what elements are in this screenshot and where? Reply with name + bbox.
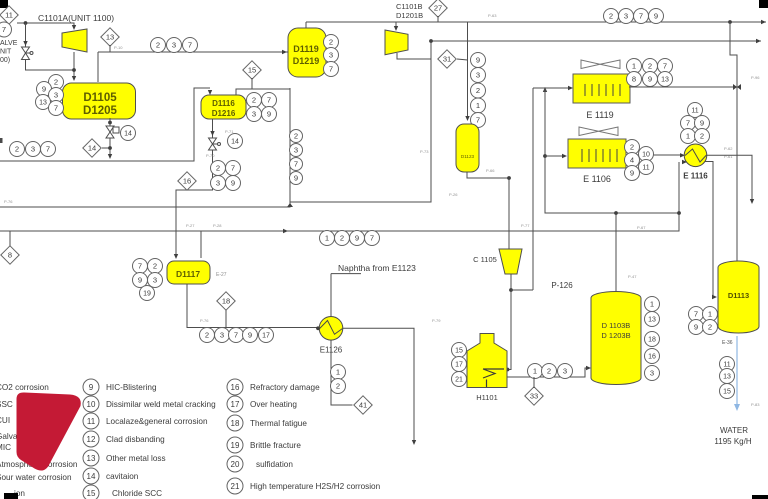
svg-text:14: 14 [231, 139, 239, 146]
junction [614, 211, 618, 215]
svg-text:3: 3 [650, 369, 654, 378]
svg-text:2: 2 [205, 331, 209, 340]
svg-text:C1101B: C1101B [396, 2, 423, 11]
svg-text:High temperature H2S/H2 corros: High temperature H2S/H2 corrosion [250, 482, 381, 491]
svg-text:P-47: P-47 [628, 274, 637, 279]
svg-text:11: 11 [723, 362, 730, 369]
node 7 tag [471, 113, 486, 128]
node 9 tag [689, 320, 704, 335]
svg-text:18: 18 [222, 297, 230, 306]
svg-text:9: 9 [694, 323, 698, 332]
arrow above valve [23, 41, 27, 46]
valve on recycle line [22, 47, 34, 60]
arrow header y22 [761, 20, 766, 24]
svg-text:1: 1 [632, 62, 636, 71]
wire diamond27 stem [437, 16, 439, 22]
svg-text:19: 19 [231, 441, 240, 450]
svg-text:P-76: P-76 [4, 199, 13, 204]
svg-text:7: 7 [46, 145, 50, 154]
svg-text:19: 19 [143, 291, 151, 298]
diamond 14 [83, 139, 101, 157]
svg-text:7: 7 [294, 160, 298, 169]
svg-text:18: 18 [648, 337, 656, 344]
wire E1119 feed [533, 87, 571, 89]
red annotation mark [17, 392, 81, 470]
node 3 tag [471, 68, 486, 83]
wire second header y41 [431, 40, 761, 42]
arrow into D1105 [72, 76, 76, 81]
junction [543, 154, 547, 158]
node 1 tag [331, 365, 346, 380]
node 7 tag [634, 9, 649, 24]
svg-text:D1216: D1216 [212, 109, 236, 118]
svg-text:17: 17 [455, 362, 463, 369]
fan of air cooler E1119 [581, 60, 620, 69]
node 7 (clipped) [0, 22, 12, 37]
node 16 tag [645, 349, 660, 364]
svg-text:9: 9 [248, 331, 252, 340]
svg-text:Dissimilar weld metal cracking: Dissimilar weld metal cracking [106, 400, 216, 409]
svg-text:2: 2 [54, 78, 58, 87]
node 2 tag [200, 328, 215, 343]
node 9 tag [695, 116, 710, 131]
svg-text:20: 20 [231, 460, 240, 469]
wire into compressor B [395, 22, 397, 27]
svg-text:2: 2 [252, 96, 256, 105]
svg-text:D1123: D1123 [461, 154, 475, 159]
svg-text:2: 2 [340, 234, 344, 243]
legend node 10 [83, 396, 99, 412]
arrow into E1106 [562, 154, 567, 158]
svg-text:Thermal fatigue: Thermal fatigue [250, 419, 307, 428]
node 3 tag [619, 9, 634, 24]
svg-text:7: 7 [663, 62, 667, 71]
node 9 tag [243, 328, 258, 343]
svg-text:2: 2 [708, 323, 712, 332]
svg-text:3: 3 [563, 367, 567, 376]
svg-text:2: 2 [700, 132, 704, 141]
legend node 21 [227, 478, 243, 494]
svg-text:2: 2 [153, 262, 157, 271]
svg-text:1: 1 [325, 234, 329, 243]
svg-text:Clad disbanding: Clad disbanding [106, 435, 165, 444]
svg-text:2: 2 [15, 145, 19, 154]
svg-text:11: 11 [691, 108, 698, 115]
wire D1116 top outlet [236, 89, 290, 95]
svg-text:P-62: P-62 [724, 146, 733, 151]
svg-text:1: 1 [533, 367, 537, 376]
diamond 13 [101, 28, 119, 46]
diamond 8 [1, 246, 19, 264]
node 1 tag [528, 364, 543, 379]
svg-text:1: 1 [686, 132, 690, 141]
svg-text:7: 7 [329, 65, 333, 74]
arrow into D1113 [712, 295, 717, 299]
svg-text:D1117: D1117 [176, 269, 200, 279]
arrow into D1123 [465, 116, 469, 121]
node 2 tag [643, 59, 658, 74]
node 3 tag [215, 328, 230, 343]
node 2 tag [247, 93, 262, 108]
wire C1105 to H1101 [506, 274, 511, 370]
legend node 13 [83, 450, 99, 466]
svg-text:7: 7 [2, 25, 6, 34]
node 3 tag [558, 364, 573, 379]
node 7 tag [324, 62, 339, 77]
svg-text:14: 14 [124, 131, 132, 138]
svg-text:1: 1 [708, 310, 712, 319]
svg-text:9: 9 [89, 383, 94, 392]
legend node 14 [83, 468, 99, 484]
legend node 19 [227, 437, 243, 453]
svg-text:CUI: CUI [0, 416, 10, 425]
arrow into D1119 [282, 50, 287, 54]
node 2 tag [331, 379, 346, 394]
node 8 tag [627, 72, 642, 87]
node 2 tag [290, 130, 303, 143]
diamond 31 [438, 50, 456, 68]
svg-text:7: 7 [639, 12, 643, 21]
svg-text:11: 11 [87, 417, 96, 426]
svg-text:11: 11 [5, 11, 13, 20]
svg-text:P-73: P-73 [420, 149, 429, 154]
svg-text:7: 7 [234, 331, 238, 340]
heat exchanger E1126 [319, 317, 343, 341]
svg-text:2: 2 [648, 62, 652, 71]
svg-text:2: 2 [630, 143, 634, 152]
svg-text:16: 16 [648, 354, 656, 361]
svg-text:7: 7 [694, 310, 698, 319]
svg-text:13: 13 [723, 374, 731, 381]
svg-text:14: 14 [88, 144, 96, 153]
node 21 tag [452, 372, 467, 387]
svg-text:P-63: P-63 [488, 13, 497, 18]
svg-text:Refractory damage: Refractory damage [250, 383, 320, 392]
svg-text:4: 4 [630, 156, 634, 165]
node 2 tag [542, 364, 557, 379]
valve below D1116 [209, 138, 221, 150]
wire diamond18 stem [225, 310, 227, 328]
node 3 tag [645, 366, 660, 381]
svg-text:NIT: NIT [0, 49, 12, 56]
svg-text:21: 21 [455, 377, 463, 384]
node 10 tag [639, 147, 654, 162]
svg-text:Over heating: Over heating [250, 400, 297, 409]
legend node 16 [227, 379, 243, 395]
black corner mark top-left [0, 0, 8, 8]
svg-text:7: 7 [370, 234, 374, 243]
air cooler E1119 [573, 74, 630, 103]
node 7 tag [689, 307, 704, 322]
node 3 tag [49, 88, 64, 103]
vessel D1103B/D1203B [591, 292, 641, 385]
node 7 tag [262, 93, 277, 108]
svg-text:15: 15 [723, 389, 731, 396]
svg-text:D1201B: D1201B [396, 11, 423, 20]
node 3 tag [324, 48, 339, 63]
svg-text:P-27: P-27 [186, 223, 195, 228]
wire compressor B discharge [397, 53, 431, 59]
svg-text:2: 2 [156, 41, 160, 50]
node 2 tag [10, 142, 25, 157]
fan of air cooler E1106 [579, 127, 618, 136]
svg-text:15: 15 [248, 66, 256, 75]
legend node 20 [227, 456, 243, 472]
node 14 tag [228, 134, 243, 149]
arrow into D1117 [174, 254, 178, 259]
svg-text:27: 27 [434, 4, 442, 13]
svg-text:9: 9 [267, 110, 271, 119]
svg-text:D1205: D1205 [83, 105, 117, 117]
svg-text:9: 9 [294, 174, 298, 183]
wire E1116 outlet right [707, 155, 753, 202]
node 3 tag [290, 144, 303, 157]
junction at furnace wall [506, 368, 510, 372]
node 2 tag [703, 320, 718, 335]
svg-text:3: 3 [216, 179, 220, 188]
node 7 tag [229, 328, 244, 343]
svg-text:2: 2 [329, 38, 333, 47]
svg-text:P-126: P-126 [551, 281, 573, 290]
node 13 tag [36, 95, 51, 110]
vessel D1117 [167, 261, 210, 284]
wire overhead riser [97, 52, 99, 82]
svg-text:11: 11 [642, 165, 649, 172]
node 7 tag [49, 101, 64, 116]
clipped fragment at left edge [0, 138, 3, 143]
junction below D1105 [108, 121, 112, 125]
node 7 tag [133, 259, 148, 274]
arrow riser junction [543, 87, 547, 92]
black corner mark bottom-right [752, 495, 768, 499]
node 9 tag [625, 166, 640, 181]
furnace H1101 [467, 334, 507, 388]
black corner mark bottom-left [4, 493, 18, 499]
wire diamond11 to compressor A [17, 23, 74, 28]
node 1 tag [627, 59, 642, 74]
wire diamond13 stem [109, 45, 111, 52]
node 9 tag [226, 176, 241, 191]
wire D1123 to C1105 [467, 172, 509, 249]
node 3 tag [148, 273, 163, 288]
svg-text:3: 3 [153, 276, 157, 285]
air cooler E1106 [568, 139, 626, 168]
arrow into E1116 side inlet [680, 153, 685, 157]
blue water line [736, 336, 738, 405]
node 15 tag [720, 384, 735, 399]
svg-text:10: 10 [87, 400, 96, 409]
svg-text:2: 2 [216, 164, 220, 173]
svg-text:Brittle fracture: Brittle fracture [250, 441, 301, 450]
arrow header y41 [756, 39, 761, 43]
svg-text:13: 13 [661, 77, 669, 84]
svg-text:12: 12 [87, 435, 96, 444]
node 14 tag [121, 126, 136, 141]
svg-text:2: 2 [609, 12, 613, 21]
arrow on valve line [210, 131, 214, 136]
svg-text:13: 13 [87, 454, 96, 463]
svg-text:P-10: P-10 [114, 45, 123, 50]
wire riser join [511, 289, 533, 291]
svg-text:P-77: P-77 [521, 223, 530, 228]
svg-text:D1105: D1105 [83, 92, 117, 104]
svg-text:2: 2 [547, 367, 551, 376]
node 1 tag [681, 129, 696, 144]
svg-text:9: 9 [42, 85, 46, 94]
svg-text:3: 3 [294, 146, 298, 155]
svg-text:17: 17 [231, 400, 240, 409]
vessel D1119/D1219 [288, 28, 326, 77]
junction [429, 39, 433, 43]
svg-text:16: 16 [231, 383, 240, 392]
svg-text:7: 7 [54, 104, 58, 113]
node 9 tag [290, 172, 303, 185]
svg-text:3: 3 [329, 51, 333, 60]
vessel D1105/D1205 [63, 83, 136, 119]
arrow into E1116 lower inlet [682, 160, 687, 164]
svg-text:14: 14 [87, 472, 96, 481]
svg-text:D1116: D1116 [212, 99, 235, 108]
node 2 tag [211, 161, 226, 176]
svg-text:7: 7 [138, 262, 142, 271]
svg-text:Chloride SCC: Chloride SCC [112, 489, 162, 498]
junction [72, 68, 76, 72]
svg-text:HIC-Blistering: HIC-Blistering [106, 383, 157, 392]
svg-text:P-96: P-96 [751, 75, 760, 80]
wire top header y22 [306, 21, 766, 23]
svg-text:3: 3 [624, 12, 628, 21]
arrow into D1103B [586, 366, 591, 370]
compressor C1101A [62, 29, 87, 52]
svg-text:31: 31 [443, 55, 451, 64]
heat exchanger E1116 [684, 144, 707, 167]
junction tick [733, 84, 737, 90]
svg-text:P-76: P-76 [200, 318, 209, 323]
arrow into C1101A [72, 25, 76, 30]
node 1 tag [645, 297, 660, 312]
junction [509, 288, 513, 292]
node 18 tag [645, 332, 660, 347]
node 3 tag [247, 107, 262, 122]
vessel D1123 [456, 124, 479, 172]
svg-text:33: 33 [530, 392, 538, 401]
ejector C1105 [499, 249, 522, 274]
legend node 15 [83, 485, 99, 499]
diamond 27 [429, 0, 447, 17]
svg-text:9: 9 [138, 276, 142, 285]
node 2 tag [335, 231, 350, 246]
svg-text:2: 2 [336, 382, 340, 391]
svg-text:13: 13 [648, 317, 656, 324]
node 15 tag [452, 343, 467, 358]
svg-text:P-83: P-83 [751, 402, 760, 407]
svg-text:ALVE: ALVE [0, 40, 18, 47]
wire E1106 feed [545, 155, 566, 157]
node 9 tag [471, 53, 486, 68]
legend node 12 [83, 431, 99, 447]
wire E1126 drain [331, 340, 353, 405]
svg-text:00): 00) [0, 57, 10, 64]
junction tick [287, 203, 293, 207]
svg-text:C1101A(UNIT 1100): C1101A(UNIT 1100) [38, 13, 114, 23]
svg-text:P-61: P-61 [724, 154, 733, 159]
wire compressor A to D1105 [73, 52, 75, 80]
svg-text:7: 7 [476, 116, 480, 125]
node 9 tag [133, 273, 148, 288]
svg-text:7: 7 [188, 41, 192, 50]
svg-text:9: 9 [231, 179, 235, 188]
node 2 tag [324, 35, 339, 50]
node 2 tag [604, 9, 619, 24]
wire naphtha source [331, 273, 361, 275]
svg-text:9: 9 [700, 119, 704, 128]
wire diamond15 stem [251, 78, 253, 89]
svg-text:P-79: P-79 [432, 318, 441, 323]
junction [24, 21, 28, 25]
wire to D1113 top [730, 22, 737, 261]
node 9 tag [350, 231, 365, 246]
arrow into C1101B [394, 26, 398, 31]
svg-text:13: 13 [106, 33, 114, 42]
svg-text:E 1119: E 1119 [586, 110, 613, 120]
svg-text:Other metal loss: Other metal loss [106, 454, 166, 463]
svg-text:15: 15 [455, 348, 463, 355]
svg-text:P-26: P-26 [449, 192, 458, 197]
svg-text:16: 16 [183, 177, 191, 186]
svg-text:E-36: E-36 [722, 340, 733, 346]
svg-text:3: 3 [476, 71, 480, 80]
svg-text:P-67: P-67 [637, 225, 646, 230]
svg-text:C 1105: C 1105 [473, 255, 497, 264]
svg-text:8: 8 [632, 75, 636, 84]
svg-text:P-28: P-28 [213, 223, 222, 228]
arrow into D1116 [208, 90, 212, 95]
diamond 16 [178, 172, 196, 190]
svg-text:3: 3 [252, 110, 256, 119]
node 13 tag [645, 312, 660, 327]
node 11 tag [720, 357, 735, 372]
svg-text:CO2 corrosion: CO2 corrosion [0, 383, 49, 392]
svg-text:9: 9 [654, 12, 658, 21]
wire diamond31 stub [457, 59, 468, 60]
wire diamond8 stem [9, 231, 11, 246]
valve below D1105 [106, 126, 119, 138]
svg-text:3: 3 [220, 331, 224, 340]
node 2 tag [151, 38, 166, 53]
legend node 9 [83, 379, 99, 395]
svg-text:18: 18 [231, 419, 240, 428]
node 2 tag [471, 83, 486, 98]
wire D1119 riser [305, 22, 307, 28]
junction [677, 211, 681, 215]
svg-text:13: 13 [39, 100, 47, 107]
node 9 tag [643, 72, 658, 87]
svg-text:17: 17 [262, 333, 270, 340]
svg-text:7: 7 [231, 164, 235, 173]
svg-text:Naphtha from E1123: Naphtha from E1123 [338, 263, 416, 273]
compressor C1101B [385, 30, 408, 55]
junction [728, 20, 732, 24]
diamond 33 [525, 387, 543, 405]
node 7 tag [681, 116, 696, 131]
svg-text:cavitaion: cavitaion [106, 472, 139, 481]
wire riser x533 [532, 88, 534, 290]
svg-text:E-27: E-27 [216, 272, 227, 278]
svg-text:8: 8 [8, 251, 12, 260]
wire long header y231 to E1116 [0, 162, 679, 231]
wire D1105 overhead y52 [98, 51, 288, 53]
node 3 tag [167, 38, 182, 53]
